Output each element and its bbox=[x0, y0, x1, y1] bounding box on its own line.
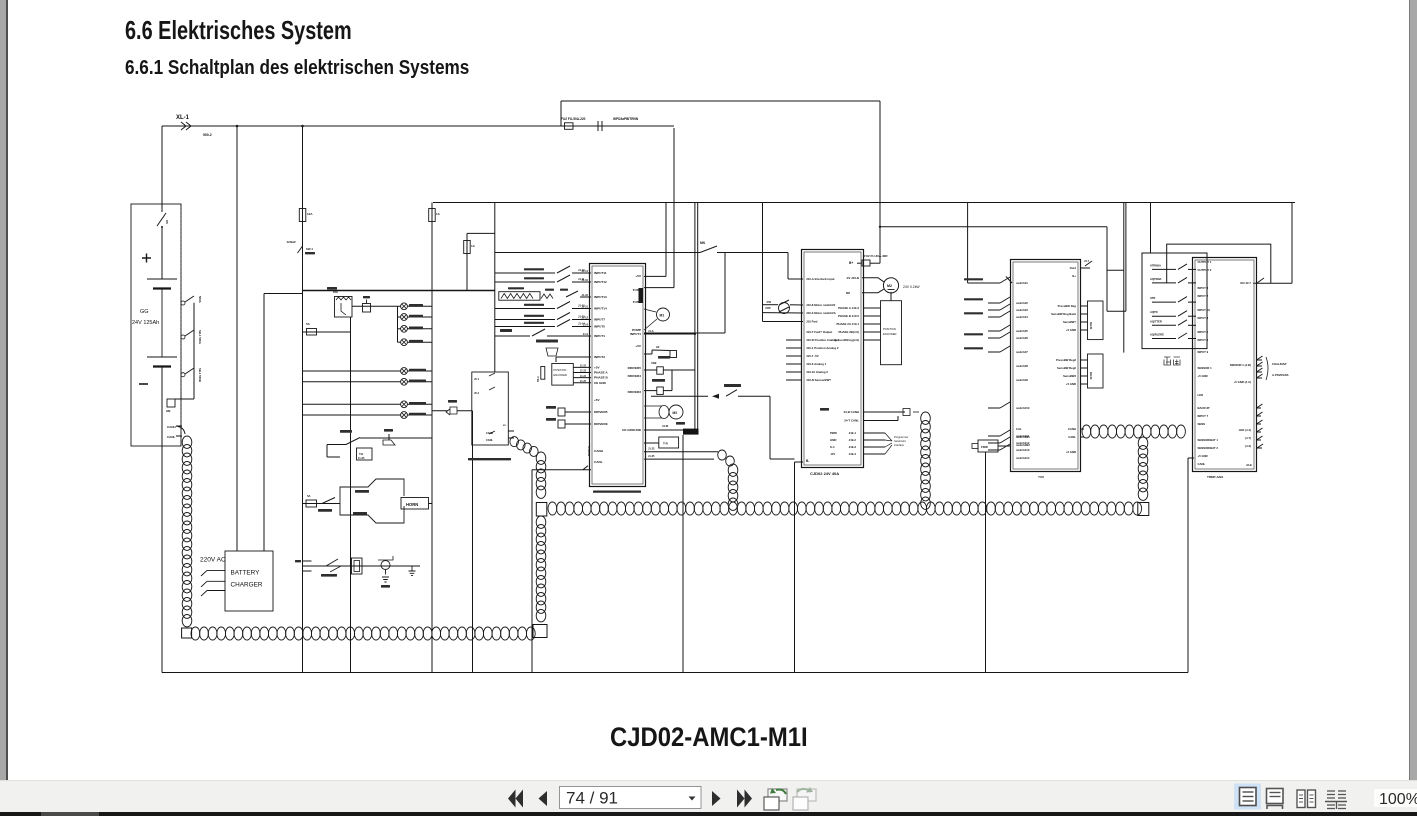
svg-text:J10-8 Motor switch#2: J10-8 Motor switch#2 bbox=[806, 303, 836, 307]
svg-text:B-: B- bbox=[806, 459, 809, 463]
svg-text:OUTPUT 2: OUTPUT 2 bbox=[1198, 268, 1212, 272]
wire B+ feeder drop bbox=[879, 203, 881, 264]
svg-text:BACKUP: BACKUP bbox=[1198, 406, 1210, 410]
wire U1 input rows bbox=[495, 272, 555, 274]
svg-text:CANH: CANH bbox=[486, 432, 493, 435]
wire U2 B- drop bbox=[795, 461, 804, 463]
svg-text:+5 GND: +5 GND bbox=[1066, 328, 1076, 332]
svg-text:CANL: CANL bbox=[1068, 435, 1076, 439]
svg-text:switch#10: switch#10 bbox=[1016, 406, 1030, 410]
svg-text:SENSOR/BAT 1: SENSOR/BAT 1 bbox=[1198, 438, 1219, 442]
harness chain U1 serial vertical bbox=[718, 450, 727, 460]
svg-text:INPUT 4: INPUT 4 bbox=[1198, 316, 1209, 320]
svg-text:INPUT11: INPUT11 bbox=[594, 271, 607, 275]
svg-text:GND: GND bbox=[830, 438, 836, 442]
svg-text:HORN: HORN bbox=[406, 502, 418, 507]
wire lamp rail drop bbox=[350, 317, 352, 673]
svg-text:switch#2: switch#2 bbox=[1016, 301, 1028, 305]
battery GG box bbox=[131, 204, 181, 446]
svg-text:24V 0.2kW: 24V 0.2kW bbox=[903, 285, 920, 289]
component FU bar bbox=[639, 288, 644, 303]
heading 6.6 Elektrisches System bbox=[125, 15, 352, 46]
wire U4 switch rows bbox=[1152, 268, 1176, 270]
svg-text:SENSOR/BAT 2: SENSOR/BAT 2 bbox=[1198, 446, 1219, 450]
svg-text:+5V: +5V bbox=[594, 366, 601, 370]
horn bracket bbox=[340, 479, 404, 523]
wire U3 aux drop bbox=[985, 452, 987, 673]
wire key-switch branch drop bbox=[302, 126, 304, 673]
node U1 left pins bbox=[589, 272, 591, 274]
wire aux bus right bbox=[880, 226, 1107, 228]
svg-text:J1-13: J1-13 bbox=[578, 315, 585, 319]
svg-text:M3: M3 bbox=[673, 411, 678, 415]
svg-text:INPUT14: INPUT14 bbox=[594, 307, 607, 311]
svg-text:ENCODER: ENCODER bbox=[883, 332, 896, 336]
svg-text:24-T CANL: 24-T CANL bbox=[844, 419, 859, 423]
wire FU2 riser bbox=[560, 101, 562, 126]
svg-text:Programmer: Programmer bbox=[894, 435, 909, 439]
bus bottom return bbox=[162, 672, 1188, 674]
label U1 footer bbox=[593, 491, 641, 493]
wire vertical to battery charger input bbox=[236, 126, 238, 551]
wire top loop right drop bbox=[879, 101, 881, 203]
wire battery positive drop bbox=[161, 126, 163, 204]
svg-text:ATRNSA: ATRNSA bbox=[1150, 263, 1161, 267]
harness chain battery side vertical bbox=[176, 426, 185, 434]
wire horn feeder bbox=[303, 503, 341, 505]
svg-text:SB-1 500A: SB-1 500A bbox=[198, 330, 202, 344]
svg-text:switch#4: switch#4 bbox=[1016, 315, 1028, 319]
wire D1 link upper bbox=[1106, 227, 1108, 311]
wire lamp left rail bbox=[397, 306, 399, 342]
svg-text:I/O GND: I/O GND bbox=[594, 381, 607, 385]
svg-text:100%: 100% bbox=[1379, 791, 1417, 808]
lamp HL7 row bbox=[303, 403, 401, 405]
svg-text:J5-1: J5-1 bbox=[474, 378, 480, 381]
lamp HL1 bbox=[398, 305, 401, 307]
svg-text:switch#5: switch#5 bbox=[1016, 329, 1028, 333]
view mode two page continuous bbox=[1325, 791, 1347, 809]
svg-text:M2: M2 bbox=[846, 291, 850, 295]
op-amp U1 traction controller bbox=[590, 264, 646, 487]
svg-text:PHASE A: PHASE A bbox=[594, 371, 608, 375]
wire interlock run bbox=[495, 252, 700, 254]
motor M3 bbox=[669, 405, 683, 419]
lamp HL3 bbox=[398, 328, 401, 330]
svg-text:FU2 FU-50A-220: FU2 FU-50A-220 bbox=[561, 117, 586, 121]
svg-text:+5 GND (J-A): +5 GND (J-A) bbox=[1234, 380, 1251, 384]
button previous page bbox=[539, 791, 548, 806]
svg-text:GG: GG bbox=[140, 309, 149, 315]
svg-text:POSITION: POSITION bbox=[554, 368, 567, 372]
switch SA3 bbox=[346, 438, 360, 445]
wire switchbox feeder bbox=[1150, 203, 1152, 254]
svg-text:B+: B+ bbox=[1072, 274, 1076, 278]
buzzer HA1 bbox=[383, 440, 395, 445]
wire U4 right feeder bbox=[1291, 203, 1293, 283]
svg-text:-4V J10-B: -4V J10-B bbox=[846, 276, 859, 280]
wire battery mid bbox=[161, 289, 163, 358]
label U1 input smudges bbox=[524, 268, 544, 270]
svg-text:OFF: OFF bbox=[765, 306, 771, 310]
svg-text:INPUT 6: INPUT 6 bbox=[1198, 338, 1209, 342]
switch service bbox=[326, 559, 338, 566]
capacitor C1 symbol bbox=[363, 304, 371, 313]
button previous view bbox=[768, 789, 787, 801]
wire U4 right brace rows bbox=[1257, 359, 1263, 361]
right scrollbar bbox=[1410, 0, 1417, 780]
wire fwd-rev feeder bbox=[762, 203, 764, 322]
svg-text:+5V: +5V bbox=[635, 274, 642, 278]
battery cell 2 bbox=[147, 356, 177, 358]
svg-text:J19-4: J19-4 bbox=[849, 452, 857, 456]
svg-text:B+: B+ bbox=[849, 261, 853, 265]
bus main distribution bbox=[433, 202, 1295, 204]
svg-text:S-4: S-4 bbox=[830, 445, 835, 449]
svg-text:SENSOR 1: SENSOR 1 bbox=[1198, 366, 1213, 370]
svg-text:INPUT 16: INPUT 16 bbox=[1198, 308, 1211, 312]
wire service row bbox=[303, 565, 421, 567]
wire U1 fuse pin rail bbox=[673, 128, 675, 288]
wire battery negative drop bbox=[161, 367, 163, 447]
label battery plus bbox=[142, 254, 151, 263]
lamp HL2 bbox=[398, 316, 401, 318]
fuse FU3 B+ bbox=[862, 260, 870, 266]
svg-text:CANL: CANL bbox=[594, 460, 603, 464]
svg-text:PHASE B: PHASE B bbox=[594, 376, 609, 380]
battery cell 1 bbox=[147, 278, 177, 280]
fuse F2 key bbox=[299, 209, 306, 222]
label window CJK bbox=[1164, 357, 1180, 365]
wire U4 right lower stubs bbox=[1257, 407, 1262, 409]
svg-text:J10-3 Motor switch#A: J10-3 Motor switch#A bbox=[806, 311, 837, 315]
wire relay to lamps bbox=[352, 305, 398, 307]
svg-text:+5 GND: +5 GND bbox=[1066, 450, 1076, 454]
wire driver rows U1 bbox=[565, 411, 591, 413]
battery tap contact 1 bbox=[181, 301, 185, 305]
wire U1 ground drop bbox=[682, 435, 684, 673]
motor M2 bbox=[883, 278, 898, 293]
svg-text:INPUT12: INPUT12 bbox=[594, 280, 607, 284]
svg-text:switch#14: switch#14 bbox=[1016, 456, 1030, 460]
diode box D2 bbox=[1088, 354, 1104, 388]
node U2 analog stubs bbox=[786, 339, 802, 341]
wire buzzer rail drop bbox=[472, 411, 474, 673]
harness chain right vertical bbox=[1138, 437, 1148, 449]
wire U3 input switch rows bbox=[988, 282, 1000, 284]
bus lamp feeder bbox=[303, 290, 495, 292]
svg-text:J10 Fwd: J10 Fwd bbox=[806, 320, 818, 324]
svg-text:CHAL/NAP: CHAL/NAP bbox=[1272, 362, 1287, 366]
svg-text:J4-7: J4-7 bbox=[1084, 260, 1090, 263]
svg-text:CJD02 24V 40A: CJD02 24V 40A bbox=[810, 471, 839, 476]
svg-text:J1-23: J1-23 bbox=[580, 370, 587, 373]
wire long rail J-rail bbox=[494, 203, 496, 373]
wire battery internal top bbox=[161, 228, 163, 279]
svg-text:PHASE 2B(J-6): PHASE 2B(J-6) bbox=[838, 330, 859, 334]
page number box bbox=[560, 787, 702, 809]
svg-text:SENS: SENS bbox=[1198, 422, 1206, 426]
wire fuse feeder lamp bbox=[303, 331, 351, 333]
svg-text:J2-B: J2-B bbox=[1246, 463, 1252, 467]
serial T-R box bbox=[659, 437, 679, 448]
svg-text:LED (J-4): LED (J-4) bbox=[1239, 428, 1251, 432]
svg-text:ENCODER: ENCODER bbox=[554, 373, 567, 377]
svg-text:switch#13: switch#13 bbox=[1016, 448, 1030, 452]
svg-text:switch#1: switch#1 bbox=[1016, 281, 1028, 285]
wire brake release bbox=[651, 395, 708, 397]
svg-text:switch#7: switch#7 bbox=[1016, 350, 1028, 354]
wire U1 bottom-left pin bbox=[532, 469, 591, 471]
svg-text:INPUT1: INPUT1 bbox=[630, 332, 641, 336]
op-amp U3 valve controller bbox=[1011, 260, 1081, 472]
svg-text:FRW: FRW bbox=[981, 445, 988, 449]
svg-text:SensBW2: SensBW2 bbox=[1063, 374, 1076, 378]
svg-text:LED: LED bbox=[1198, 393, 1204, 397]
button last page bbox=[737, 790, 745, 808]
svg-text:CANL: CANL bbox=[1198, 462, 1206, 466]
buzzer HA2 bbox=[432, 410, 473, 412]
label CN1 footer bbox=[468, 458, 511, 460]
harness chain mid vertical bbox=[536, 452, 546, 464]
svg-text:+5V: +5V bbox=[594, 398, 601, 402]
wire U3 top right stubs bbox=[1081, 267, 1090, 269]
svg-text:INPUT 2: INPUT 2 bbox=[1198, 294, 1209, 298]
svg-text:Out1: Out1 bbox=[1070, 266, 1077, 270]
svg-text:HM: HM bbox=[166, 409, 171, 413]
wire U2 CAN to chain bbox=[863, 411, 905, 413]
svg-text:+5V: +5V bbox=[635, 344, 642, 348]
svg-text:+5 GND: +5 GND bbox=[1198, 374, 1208, 378]
lamp HL6 row bbox=[303, 381, 401, 383]
wire serial CANL bbox=[644, 458, 714, 460]
wire top loop horizontal bbox=[561, 100, 880, 102]
svg-text:1A: 1A bbox=[471, 244, 476, 248]
svg-text:FW: FW bbox=[767, 300, 772, 304]
wire U4 ground drop bbox=[1187, 458, 1189, 673]
svg-text:PWR: PWR bbox=[830, 431, 838, 435]
fuse F4 lamp bbox=[307, 329, 317, 336]
svg-text:J10-A Interlock input: J10-A Interlock input bbox=[806, 277, 835, 281]
svg-text:DRIVER4: DRIVER4 bbox=[628, 374, 642, 378]
wire driver stub DPV bbox=[644, 390, 657, 392]
harness chain serial diagonal bbox=[510, 437, 519, 447]
svg-text:WPD3aPBITRNN: WPD3aPBITRNN bbox=[613, 117, 639, 121]
wire fuse drop F1 bbox=[431, 203, 433, 291]
svg-text:AQTR: AQTR bbox=[1150, 310, 1158, 314]
wire chain-side drop bbox=[531, 470, 533, 673]
junction aux bbox=[879, 226, 881, 228]
svg-text:J1-25: J1-25 bbox=[580, 380, 587, 383]
svg-text:INPUT7: INPUT7 bbox=[594, 318, 605, 322]
left scrollbar gutter bbox=[0, 0, 6, 780]
svg-text:CANH: CANH bbox=[167, 425, 176, 429]
svg-text:J10-1 Position Analog 2: J10-1 Position Analog 2 bbox=[806, 346, 839, 350]
wire horn right bbox=[429, 503, 433, 505]
wire second fuse branch bbox=[467, 232, 495, 234]
horn HORN box bbox=[401, 498, 429, 510]
lamp HL4 bbox=[398, 341, 401, 343]
fuse holder service bbox=[352, 558, 363, 574]
wire U2 prog fanout bbox=[863, 432, 885, 434]
svg-text:TRMP-A/B1: TRMP-A/B1 bbox=[1207, 475, 1224, 479]
svg-text:POSITION: POSITION bbox=[883, 327, 896, 331]
relay TH box bbox=[357, 448, 373, 460]
wire U3 box1 leads bbox=[1081, 305, 1088, 307]
svg-text:CANL: CANL bbox=[167, 435, 175, 439]
svg-text:74 / 91: 74 / 91 bbox=[566, 788, 618, 807]
harness chain U3-U4 horizontal bbox=[1082, 425, 1091, 438]
wire brake switch row bbox=[327, 444, 346, 446]
wire charger second input bbox=[264, 293, 303, 295]
svg-text:ATR: ATR bbox=[1150, 296, 1155, 300]
svg-text:J1-10: J1-10 bbox=[578, 268, 585, 272]
svg-text:HF: HF bbox=[656, 345, 660, 349]
svg-text:switch#9: switch#9 bbox=[1016, 378, 1028, 382]
svg-text:DRIVER3: DRIVER3 bbox=[628, 390, 642, 394]
svg-text:PHASE B J10-5: PHASE B J10-5 bbox=[838, 314, 859, 318]
position encoder U2 box bbox=[881, 301, 902, 365]
wire serial CANH bbox=[644, 451, 718, 453]
harness chain U2 CAN vertical bbox=[921, 412, 931, 424]
wire U1 input1 row bbox=[495, 335, 530, 337]
connector HM bbox=[167, 399, 175, 407]
op-amp U2 pump controller bbox=[802, 250, 864, 468]
connector I/O ground blob bbox=[683, 429, 699, 435]
svg-text:J10-T Fwd? Output: J10-T Fwd? Output bbox=[806, 330, 832, 334]
svg-text:SENSOR 1 (J-B): SENSOR 1 (J-B) bbox=[1230, 363, 1251, 367]
fuse F3 bbox=[464, 241, 471, 254]
svg-text:CAL: CAL bbox=[1016, 427, 1022, 431]
resistor throttle sender bbox=[499, 292, 540, 301]
wire U1 FUSE pair drop bbox=[694, 203, 696, 431]
svg-text:PressBW Reg: PressBW Reg bbox=[1058, 304, 1077, 308]
connector CN1 box bbox=[472, 372, 509, 445]
svg-text:24V 125Ah: 24V 125Ah bbox=[132, 320, 159, 326]
svg-text:J1-22: J1-22 bbox=[580, 365, 587, 368]
switch horn SB bbox=[322, 498, 335, 504]
motor M1 bbox=[657, 308, 670, 321]
svg-text:11-25: 11-25 bbox=[358, 456, 365, 460]
wire U4 bottom stub bbox=[1257, 447, 1263, 449]
op-amp U4 display unit bbox=[1193, 258, 1257, 472]
ground service bbox=[409, 566, 416, 576]
svg-text:UNE: UNE bbox=[651, 361, 657, 365]
svg-text:hand-held: hand-held bbox=[894, 439, 906, 443]
svg-text:AQ/RLERE: AQ/RLERE bbox=[1150, 333, 1164, 337]
svg-text:J1-14: J1-14 bbox=[578, 322, 585, 326]
svg-text:J1-A: J1-A bbox=[648, 329, 654, 333]
svg-text:XL-1: XL-1 bbox=[176, 115, 190, 121]
gauge service bbox=[381, 561, 390, 570]
wire encoder leads bbox=[573, 366, 591, 368]
wire U3 CAN chain stubs bbox=[1081, 428, 1084, 430]
svg-text:500-2: 500-2 bbox=[203, 133, 212, 137]
svg-text:SB-1 500B: SB-1 500B bbox=[198, 368, 202, 382]
svg-text:J5-2: J5-2 bbox=[474, 392, 480, 395]
wire driver stub HF bbox=[644, 353, 652, 355]
svg-text:OUTPUT 1: OUTPUT 1 bbox=[1198, 260, 1212, 264]
battery charger box bbox=[225, 551, 273, 611]
svg-text:INPUT 5: INPUT 5 bbox=[1198, 330, 1209, 334]
svg-text:J10-7 -5V: J10-7 -5V bbox=[806, 354, 819, 358]
svg-text:J10-N SensorBW?: J10-N SensorBW? bbox=[806, 378, 831, 382]
heading 6.6.1 Schaltplan des elektrischen Systems bbox=[125, 57, 469, 80]
connector bracket bbox=[303, 561, 312, 571]
svg-text:CANH: CANH bbox=[594, 449, 604, 453]
svg-text:switch#6: switch#6 bbox=[1016, 336, 1028, 340]
wire U1 J1-B rail bbox=[724, 253, 726, 334]
svg-text:SW-1: SW-1 bbox=[306, 247, 313, 251]
wire encoder U2 leads bbox=[864, 307, 881, 309]
svg-text:FU2 FU-30A-40R: FU2 FU-30A-40R bbox=[864, 254, 888, 258]
fuse F5 horn bbox=[306, 500, 317, 507]
svg-text:TH: TH bbox=[359, 452, 363, 456]
switch FWD-REV bbox=[779, 303, 790, 314]
svg-text:J1-23: J1-23 bbox=[648, 448, 655, 451]
switch box dashboard bbox=[1142, 253, 1207, 349]
svg-text:INPUT 7: INPUT 7 bbox=[1198, 414, 1209, 418]
svg-text:DRIVER5: DRIVER5 bbox=[628, 366, 642, 370]
svg-text:J10-6 Analog 1: J10-6 Analog 1 bbox=[806, 362, 827, 366]
caption CJD02-AMC1-M1I bbox=[610, 722, 808, 753]
junction key branch bbox=[301, 125, 304, 128]
button next page bbox=[712, 791, 721, 806]
svg-text:INPUT13: INPUT13 bbox=[594, 295, 607, 299]
svg-text:220V AC: 220V AC bbox=[200, 557, 226, 564]
svg-text:J1-12: J1-12 bbox=[578, 304, 585, 308]
svg-text:-OV: -OV bbox=[830, 452, 835, 456]
svg-text:switch#8: switch#8 bbox=[1016, 364, 1028, 368]
switch key SW bbox=[298, 246, 303, 262]
svg-text:CANH: CANH bbox=[1068, 427, 1076, 431]
wire driver stub UNE bbox=[644, 369, 657, 371]
svg-text:SensBW?: SensBW? bbox=[1063, 320, 1076, 324]
svg-text:SensBW Reg Back: SensBW Reg Back bbox=[1051, 312, 1076, 316]
svg-text:SensorWiring(J-9): SensorWiring(J-9) bbox=[834, 338, 859, 342]
svg-text:M1: M1 bbox=[660, 314, 665, 318]
svg-text:PHASE 2A J10-1: PHASE 2A J10-1 bbox=[836, 322, 859, 326]
switch interlock bbox=[700, 246, 717, 253]
junction charger bus bbox=[236, 125, 239, 128]
svg-text:+5 GND: +5 GND bbox=[1198, 454, 1208, 458]
svg-text:T-R: T-R bbox=[663, 442, 669, 446]
svg-text:INPUT1: INPUT1 bbox=[594, 334, 605, 338]
svg-text:M2: M2 bbox=[887, 284, 892, 288]
harness chain main horizontal bbox=[548, 502, 557, 515]
wire U3 feeder bbox=[967, 203, 969, 284]
svg-text:J10-10 Analog 2: J10-10 Analog 2 bbox=[806, 370, 828, 374]
view mode two pages bbox=[1297, 790, 1305, 808]
svg-text:CANL: CANL bbox=[486, 439, 493, 442]
wire U4 box feeders bbox=[1123, 203, 1125, 353]
svg-text:interface: interface bbox=[894, 443, 905, 447]
svg-text:BATTERY: BATTERY bbox=[231, 570, 261, 577]
harness chain bottom left horizontal bbox=[191, 627, 200, 640]
svg-text:switch#B2: switch#B2 bbox=[1016, 443, 1030, 447]
svg-text:120mF: 120mF bbox=[286, 240, 296, 244]
svg-text:CHARGER: CHARGER bbox=[231, 582, 263, 589]
svg-text:24-B CANH: 24-B CANH bbox=[844, 410, 859, 414]
position encoder U1 box bbox=[552, 364, 574, 386]
svg-text:+5 GND: +5 GND bbox=[1066, 382, 1076, 386]
svg-text:J1-11: J1-11 bbox=[578, 277, 585, 281]
lamp HL8 row bbox=[303, 414, 401, 416]
svg-text:YXX: YXX bbox=[1038, 475, 1044, 479]
label DRAPER bbox=[536, 340, 558, 343]
svg-text:10A: 10A bbox=[307, 212, 313, 216]
svg-text:500A: 500A bbox=[198, 296, 202, 303]
